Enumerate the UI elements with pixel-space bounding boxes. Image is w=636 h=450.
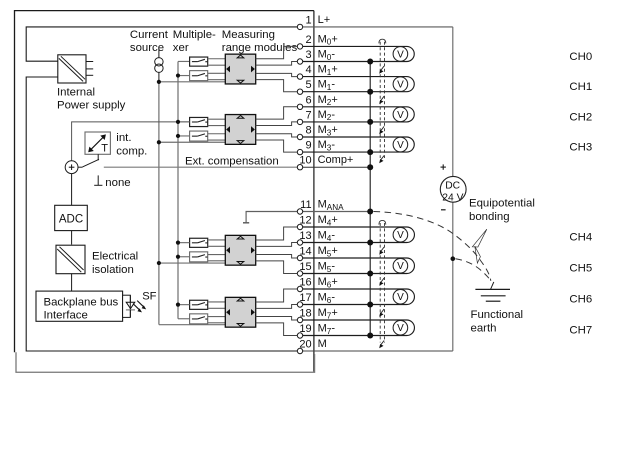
internal power supply diagonal symbol: [59, 58, 83, 81]
svg-text:24 V: 24 V: [442, 192, 463, 203]
node bus A feed group 2: [159, 141, 225, 143]
terminal 6 circle: [297, 104, 302, 109]
svg-text:V: V: [397, 261, 404, 272]
svg-text:Power supply: Power supply: [57, 100, 126, 112]
wire pair and voltmeter capsule CH6: [300, 289, 414, 305]
svg-text:Interface: Interface: [44, 310, 88, 322]
dashed equipotential curve from MANA bus: [374, 212, 491, 281]
node bus B to S4: [178, 135, 190, 137]
node bus B to S2: [178, 75, 190, 77]
voltmeter V CH4: [393, 227, 408, 242]
terminal 3 circle: [297, 59, 302, 64]
svg-text:15: 15: [299, 261, 311, 273]
junction node: [367, 240, 373, 246]
node bus B to S6: [178, 256, 190, 258]
svg-text:int.: int.: [116, 132, 131, 144]
svg-text:1: 1: [305, 14, 311, 26]
svg-text:M1-: M1-: [318, 79, 336, 92]
wire MANA internal stub: [243, 222, 249, 224]
svg-text:6: 6: [305, 94, 311, 106]
terminal 19 circle: [297, 333, 302, 338]
DC source minus sign: [441, 209, 446, 211]
measuring module U3 triangles: [237, 115, 244, 118]
cable shield dashed lines: [379, 220, 386, 224]
svg-text:9: 9: [305, 140, 311, 152]
DC 24V source circle: [440, 176, 466, 202]
measuring module U4 triangles: [237, 236, 244, 239]
svg-text:M7-: M7-: [318, 323, 336, 336]
internal compensation box: [85, 132, 110, 154]
mux switch S2 group 1: [190, 71, 208, 81]
wire bus B bottom to mux switch S8: [178, 318, 190, 320]
wire module out to M- (upper): [256, 62, 300, 66]
svg-text:CH0: CH0: [569, 51, 592, 63]
mux switch S8 group 4: [190, 314, 208, 324]
voltmeter V CH1: [393, 77, 408, 92]
wire module out to M+ (lower): [256, 73, 300, 76]
equipotential bonding leader arrows: [472, 229, 486, 247]
bus B multiplexer common vertical: [177, 61, 179, 318]
svg-text:Multiple-: Multiple-: [173, 29, 216, 41]
svg-text:V: V: [397, 292, 404, 303]
svg-text:V: V: [397, 323, 404, 334]
shield arrow: [381, 96, 384, 100]
mux switch S7 group 4: [190, 300, 208, 309]
svg-text:V: V: [397, 110, 404, 121]
terminal 8 circle: [297, 134, 302, 139]
wire module out to M- (upper): [256, 243, 300, 247]
measuring range module U5 box: [225, 297, 255, 327]
measuring module U2 triangles: [237, 55, 244, 58]
voltmeter V CH2: [393, 107, 408, 122]
shield arrow: [381, 126, 384, 130]
svg-text:M: M: [318, 338, 327, 350]
voltmeter V CH6: [393, 289, 408, 304]
svg-text:CH7: CH7: [569, 325, 592, 337]
selector switch wiper: [78, 166, 83, 168]
junction node: [367, 209, 373, 215]
svg-text:M2-: M2-: [318, 109, 336, 122]
measuring module U5 triangles: [237, 298, 244, 301]
terminal 14 circle: [297, 255, 302, 260]
wire pair and voltmeter capsule CH7: [300, 320, 414, 336]
inner circuit frame top / wire L+ to terminal 1: [26, 27, 297, 61]
terminal 13 circle: [297, 240, 302, 245]
wire L+ rail to DC source: [303, 26, 453, 28]
DC source plus sign: [441, 166, 446, 168]
wire measurement line to summation point: [72, 122, 190, 161]
svg-text:CH5: CH5: [569, 263, 592, 275]
inner circuit frame left+bottom / wire M rail: [26, 77, 297, 351]
wires mux to measuring module group 3: [208, 239, 226, 241]
svg-text:T: T: [101, 143, 108, 155]
internal power supply output pins: [86, 61, 93, 63]
svg-text:CH4: CH4: [569, 232, 592, 244]
svg-text:xer: xer: [173, 42, 189, 54]
wire pair and voltmeter capsule CH5: [300, 258, 414, 274]
svg-text:20: 20: [299, 339, 311, 351]
wire module out to terminal 12 (M+): [256, 227, 300, 240]
node bus A feed group 3: [159, 262, 225, 264]
wire M rail to DC source: [303, 350, 453, 352]
wire current source to bus A: [158, 72, 160, 82]
svg-text:M0-: M0-: [318, 49, 336, 62]
terminal 5 circle: [297, 89, 302, 94]
shield arrow: [381, 247, 384, 251]
terminal 2 circle: [297, 44, 302, 49]
wire pair and voltmeter capsule CH2: [300, 107, 414, 122]
terminal 17 circle: [297, 302, 302, 307]
shield arrow: [381, 156, 384, 160]
svg-text:5: 5: [305, 79, 311, 91]
wire DC 24V vertical: [452, 27, 454, 177]
svg-text:12: 12: [299, 215, 311, 227]
wire isolation to backplane bus interface: [71, 273, 73, 291]
junction node: [367, 89, 373, 95]
svg-text:range modules: range modules: [222, 42, 298, 54]
wire summation to ADC: [71, 174, 73, 206]
svg-text:CH2: CH2: [569, 111, 592, 123]
node bus A feed group 1: [159, 81, 225, 83]
wire module out to M- (lower): [256, 261, 300, 274]
svg-text:13: 13: [299, 230, 311, 242]
dashed equipotential curve from DC minus: [456, 259, 491, 281]
svg-text:14: 14: [299, 246, 311, 258]
junction node: [367, 333, 373, 339]
ADC box: [55, 205, 88, 230]
svg-text:Equipotential: Equipotential: [469, 198, 535, 210]
wire module out to M- (upper): [256, 122, 300, 126]
svg-text:V: V: [397, 49, 404, 60]
terminal 10 circle: [297, 165, 302, 170]
svg-text:CH3: CH3: [569, 141, 592, 153]
svg-text:V: V: [397, 80, 404, 91]
terminal 9 circle: [297, 149, 302, 154]
terminal 11 circle: [297, 209, 302, 214]
terminal 12 circle: [297, 224, 302, 229]
svg-text:comp.: comp.: [116, 145, 147, 157]
SF LED light arrows: [133, 304, 140, 311]
wire ADC to electrical isolation: [71, 231, 73, 245]
internal power supply U1 box: [58, 55, 86, 83]
wires mux to measuring module group 1: [208, 58, 226, 60]
measuring range module U2 box: [225, 54, 255, 84]
mux switch S6 group 3: [190, 252, 208, 262]
wire pair and voltmeter capsule CH1: [300, 77, 414, 92]
wire module out to M- (lower): [256, 80, 300, 92]
svg-text:earth: earth: [471, 323, 497, 335]
svg-text:L+: L+: [318, 14, 331, 26]
shield arrow: [381, 309, 384, 313]
current source G1 symbol: [158, 50, 160, 58]
voltmeter V CH3: [393, 137, 408, 152]
wire pair and voltmeter capsule CH4: [300, 227, 414, 243]
svg-text:Electrical: Electrical: [92, 251, 138, 263]
svg-text:CH1: CH1: [569, 81, 592, 93]
wire module out to M- (lower): [256, 140, 300, 152]
svg-text:16: 16: [299, 277, 311, 289]
svg-text:none: none: [105, 177, 130, 189]
mux switch S3 group 2: [190, 117, 208, 126]
svg-text:Backplane bus: Backplane bus: [44, 297, 119, 309]
node equipotential junction on DC line: [451, 256, 456, 261]
shield arrow: [381, 341, 384, 345]
svg-text:V: V: [397, 140, 404, 151]
junction node: [367, 164, 373, 170]
svg-text:Measuring: Measuring: [222, 29, 275, 41]
shield arrow: [381, 66, 384, 70]
svg-text:10: 10: [299, 155, 311, 167]
terminal 20 circle: [297, 348, 302, 353]
svg-text:19: 19: [299, 323, 311, 335]
module outer frame bottom (gray): [16, 352, 315, 372]
svg-text:3: 3: [305, 49, 311, 61]
terminal 18 circle: [297, 317, 302, 322]
svg-text:M4-: M4-: [318, 230, 336, 243]
wire module out to M+ (lower): [256, 317, 300, 320]
wire pair and voltmeter capsule CH3: [300, 137, 414, 152]
module outer frame (top and left): [15, 11, 314, 353]
wire pair and voltmeter capsule CH0: [300, 46, 414, 61]
svg-text:bonding: bonding: [469, 211, 510, 223]
bus A current source vertical: [158, 82, 160, 325]
summation point circle: [65, 161, 78, 174]
svg-text:CH6: CH6: [569, 294, 592, 306]
svg-text:isolation: isolation: [92, 264, 134, 276]
wire module out to M- (lower): [256, 323, 300, 336]
electrical isolation box: [56, 245, 85, 274]
svg-text:2: 2: [305, 34, 311, 46]
electrical isolation diagonal symbol: [57, 249, 81, 272]
ground none symbol: [97, 175, 99, 185]
svg-text:11: 11: [300, 199, 311, 211]
shield arrow: [381, 278, 384, 282]
terminal 16 circle: [297, 286, 302, 291]
functional earth symbol: [491, 282, 494, 290]
svg-text:18: 18: [299, 308, 311, 320]
wires mux to measuring module group 4: [208, 301, 226, 303]
terminal 7 circle: [297, 119, 302, 124]
svg-text:Internal: Internal: [57, 87, 95, 99]
node bus B to S5: [178, 242, 190, 244]
junction node: [367, 271, 373, 277]
svg-text:7: 7: [305, 109, 311, 121]
junction node: [367, 119, 373, 125]
cable shield dashed lines: [379, 39, 386, 43]
wire module out to terminal 16 (M+): [256, 289, 300, 302]
terminal 1 circle: [297, 24, 302, 29]
SF LED diode symbol: [126, 302, 135, 308]
SF LED box: [123, 295, 131, 317]
svg-text:Comp+: Comp+: [318, 154, 354, 166]
terminal 15 circle: [297, 271, 302, 276]
mux switch S5 group 3: [190, 238, 208, 247]
wire module out to terminal 2 (M+): [256, 46, 300, 58]
junction node: [367, 59, 373, 65]
svg-text:SF: SF: [142, 291, 156, 303]
svg-text:M6-: M6-: [318, 292, 336, 305]
svg-text:M3-: M3-: [318, 139, 336, 152]
svg-text:ADC: ADC: [59, 213, 83, 225]
svg-text:Functional: Functional: [471, 309, 524, 321]
voltmeter V CH0: [393, 47, 408, 62]
junction bus vertical (MANA reference): [369, 62, 371, 336]
wire int comp to selector contact: [97, 154, 99, 160]
wire Comp+ to junction bus: [303, 166, 370, 168]
module outer frame right edge / terminal strip line: [313, 11, 315, 372]
svg-text:DC: DC: [445, 181, 460, 192]
backplane bus interface box: [36, 291, 123, 321]
measuring range module U3 box: [225, 115, 255, 145]
junction node: [367, 149, 373, 155]
svg-text:17: 17: [299, 292, 311, 304]
mux switch S4 group 2: [190, 131, 208, 141]
measuring range module U4 box: [225, 235, 255, 265]
wire bus B top to mux switch S1: [178, 60, 190, 62]
svg-text:8: 8: [305, 125, 311, 137]
voltmeter V CH7: [393, 320, 408, 335]
internal compensation T sensor symbol: [91, 137, 103, 149]
mux switch S1 group 1: [190, 57, 208, 66]
svg-text:Ext. compensation: Ext. compensation: [185, 156, 279, 168]
wire module out to M+ (lower): [256, 255, 300, 258]
svg-text:4: 4: [305, 64, 311, 76]
wires mux to measuring module group 2: [208, 118, 226, 120]
wire Ext. compensation to terminal 10: [104, 166, 297, 168]
svg-text:M5-: M5-: [318, 261, 336, 274]
wire module out to terminal 6 (M+): [256, 107, 300, 119]
wire module out to M+ (lower): [256, 134, 300, 137]
terminal 4 circle: [297, 74, 302, 79]
wire module out to M- (upper): [256, 305, 300, 309]
node bus B to S3: [178, 121, 190, 123]
svg-text:Current: Current: [130, 29, 169, 41]
svg-text:V: V: [397, 230, 404, 241]
voltmeter V CH5: [393, 258, 408, 273]
node bus B to S7: [178, 304, 190, 306]
junction node: [367, 302, 373, 308]
